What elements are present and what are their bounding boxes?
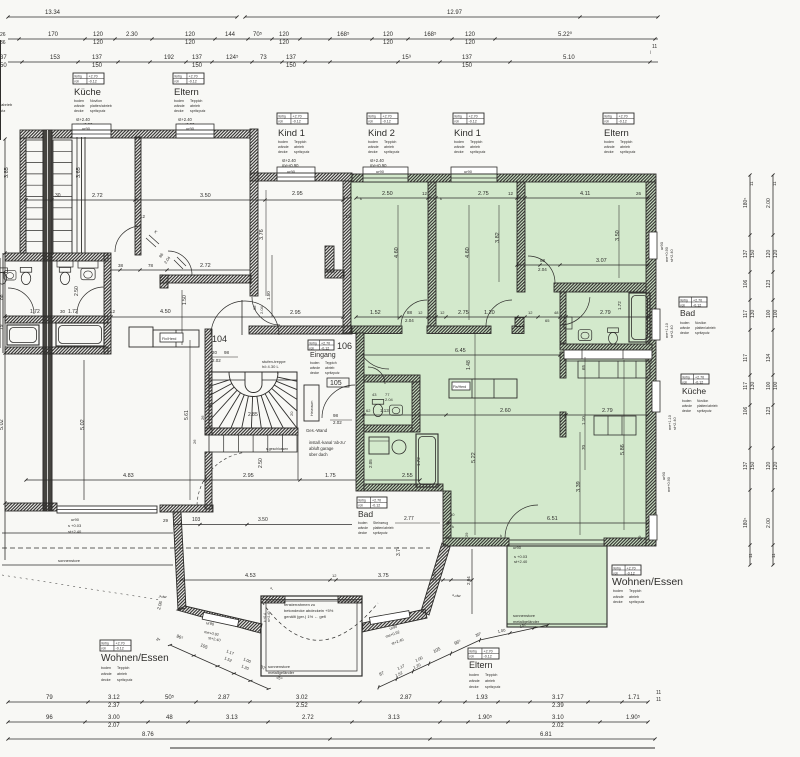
svg-text:abrieb: abrieb (325, 366, 335, 370)
svg-text:4.53: 4.53 (245, 573, 256, 579)
svg-text:1.72: 1.72 (416, 457, 421, 466)
svg-text:100: 100 (773, 309, 779, 318)
bathroom fixtures left bath (20, 267, 31, 284)
svg-text:ur90: ur90 (464, 169, 473, 174)
svg-text:me+0.90: me+0.90 (665, 247, 669, 262)
svg-text:+2.70: +2.70 (89, 74, 98, 78)
svg-text:ur90: ur90 (376, 169, 385, 174)
svg-text:spritzputz: spritzputz (325, 371, 340, 375)
svg-text:2.55: 2.55 (402, 473, 413, 479)
svg-text:150: 150 (286, 63, 297, 69)
svg-text:hö 4.30 L: hö 4.30 L (262, 364, 279, 369)
svg-text:+2.70: +2.70 (484, 649, 493, 653)
svg-text:4.60: 4.60 (394, 247, 400, 258)
svg-text:betondecke abdeckein +5%: betondecke abdeckein +5% (284, 608, 334, 613)
svg-text:ur90: ur90 (659, 241, 664, 250)
svg-text:1.72: 1.72 (30, 309, 40, 315)
svg-text:2.39: 2.39 (552, 703, 564, 709)
svg-text:12: 12 (422, 191, 428, 196)
svg-text:192: 192 (164, 55, 175, 61)
svg-text:me+0.90: me+0.90 (667, 477, 671, 492)
svg-text:150: 150 (192, 63, 203, 69)
svg-text:50⁵: 50⁵ (165, 694, 175, 701)
svg-text:Teppich: Teppich (470, 140, 482, 144)
corridor/stair semicircle opening (211, 301, 279, 335)
svg-text:3.00: 3.00 (108, 715, 120, 721)
dim line y523 (448, 522, 648, 524)
svg-text:4.11: 4.11 (580, 191, 590, 197)
svg-text:↖: ↖ (270, 586, 273, 591)
svg-text:62: 62 (366, 408, 371, 413)
svg-text:abrieb: abrieb (485, 679, 495, 683)
svg-text:120: 120 (383, 40, 394, 46)
svg-text:12: 12 (140, 214, 146, 219)
svg-text:5.02: 5.02 (0, 419, 5, 430)
svg-text:120: 120 (185, 32, 196, 38)
svg-text:15⁹: 15⁹ (402, 54, 412, 61)
svg-text:abrieb: abrieb (629, 595, 639, 599)
svg-text:wände: wände (310, 366, 320, 370)
svg-text:Novilon: Novilon (90, 99, 102, 103)
svg-text:2.60: 2.60 (500, 408, 511, 414)
bathtub right (56, 323, 104, 346)
svg-text:123: 123 (766, 279, 772, 288)
svg-text:Teppich: Teppich (485, 673, 497, 677)
svg-text:1.20: 1.20 (484, 310, 495, 316)
svg-text:12: 12 (332, 573, 337, 578)
svg-text:2.85: 2.85 (248, 412, 258, 418)
Bad 105 labels (357, 497, 387, 508)
svg-text:100: 100 (766, 381, 772, 390)
room label Kind 2 (green unit) (367, 113, 398, 124)
svg-text:fertig: fertig (75, 74, 82, 78)
svg-text:88: 88 (540, 258, 546, 263)
svg-text:+2.70: +2.70 (321, 341, 330, 345)
svg-text:2.02: 2.02 (552, 723, 564, 729)
svg-text:2.87: 2.87 (400, 695, 412, 701)
svg-text:roh: roh (455, 119, 460, 123)
bay wall left diagonal (177, 606, 262, 633)
svg-text:sonnenstore: sonnenstore (513, 613, 536, 618)
svg-text:79: 79 (0, 324, 5, 330)
svg-text:Ges.-Wand: Ges.-Wand (306, 428, 328, 433)
svg-text:decke: decke (680, 331, 689, 335)
svg-text:2.30: 2.30 (126, 32, 138, 38)
svg-text:12: 12 (345, 214, 351, 219)
svg-text:12: 12 (528, 310, 533, 315)
dim line y265 Eltern (517, 264, 648, 266)
svg-text:150: 150 (750, 461, 756, 470)
bottom dim line 3 (8, 738, 655, 740)
Bad green labels (679, 297, 707, 307)
svg-text:3.13: 3.13 (226, 715, 238, 721)
svg-text:spritzputz: spritzputz (470, 150, 486, 154)
svg-text:wände: wände (680, 326, 690, 330)
svg-text:5.22⁰: 5.22⁰ (558, 31, 573, 38)
svg-text:78: 78 (148, 263, 154, 268)
svg-text:boden: boden (368, 140, 378, 144)
svg-text:2.00: 2.00 (766, 518, 772, 528)
svg-text:153: 153 (50, 55, 61, 61)
svg-text:4.83: 4.83 (123, 473, 134, 479)
svg-text:/abrieb: /abrieb (0, 102, 13, 107)
svg-text:+2.70: +2.70 (383, 114, 392, 118)
bathroom left edge lines (2, 253, 4, 353)
svg-text:5.10: 5.10 (563, 55, 575, 61)
svg-text:fertig: fertig (614, 566, 621, 570)
svg-text:st+2.40: st+2.40 (673, 417, 677, 430)
Kueche stub walls (560, 352, 566, 378)
dims 38 78 2.72 (111, 269, 250, 271)
svg-text:2.95: 2.95 (243, 473, 254, 479)
svg-text:wände: wände (358, 526, 368, 530)
svg-text:Teppich: Teppich (384, 140, 396, 144)
svg-text:Bad: Bad (680, 308, 695, 318)
bay wall left vertical (173, 512, 186, 610)
Heizraum closet (304, 385, 319, 421)
svg-text:168⁵: 168⁵ (424, 31, 437, 38)
svg-text:103: 103 (192, 517, 201, 523)
wall Kind2/Kind1 (428, 182, 436, 329)
svg-text:2.52: 2.52 (296, 703, 308, 709)
svg-text:spritzputz: spritzputz (695, 331, 710, 335)
svg-text:+2.70: +2.70 (693, 298, 702, 302)
svg-text:29: 29 (445, 535, 450, 540)
svg-text:30: 30 (55, 193, 61, 199)
Kueche green labels (681, 374, 709, 384)
svg-text:98: 98 (224, 350, 230, 355)
vertical dim 5.61 (189, 340, 191, 500)
svg-text:100: 100 (773, 381, 779, 390)
bath105 block walls (356, 333, 364, 491)
svg-text:2.79: 2.79 (600, 310, 611, 316)
svg-text:137: 137 (743, 461, 749, 470)
svg-text:decke: decke (469, 685, 479, 689)
svg-text:3.13: 3.13 (388, 715, 400, 721)
svg-text:wände: wände (101, 672, 112, 676)
svg-text:130: 130 (750, 381, 756, 390)
svg-text:platten/abrieb: platten/abrieb (695, 326, 716, 330)
svg-text:metallgeländer: metallgeländer (268, 670, 295, 675)
entrance door arcs (356, 336, 389, 369)
hall/Bad wall green unit (560, 292, 566, 343)
svg-text:137: 137 (743, 249, 749, 258)
svg-text:2.75: 2.75 (458, 310, 469, 316)
svg-text:-0.12: -0.12 (619, 119, 627, 123)
svg-text:37: 37 (0, 55, 7, 61)
svg-text:ur90: ur90 (661, 471, 666, 480)
svg-text:decke: decke (358, 531, 367, 535)
svg-text:decke: decke (604, 150, 614, 154)
svg-text:117: 117 (743, 382, 749, 390)
svg-text:3.76: 3.76 (259, 229, 265, 240)
svg-text:+2.70: +2.70 (619, 114, 628, 118)
svg-text:decke: decke (368, 150, 378, 154)
svg-text:Fix/Herd: Fix/Herd (162, 337, 176, 341)
svg-text:+2.70: +2.70 (627, 566, 636, 570)
svg-text:120: 120 (93, 40, 104, 46)
svg-text:30: 30 (450, 512, 455, 517)
svg-text:sonnenstore: sonnenstore (58, 558, 81, 563)
svg-text:decke: decke (174, 109, 184, 113)
svg-text:5.22: 5.22 (471, 452, 477, 463)
svg-text:50: 50 (0, 63, 7, 69)
svg-text:spritzputz: spritzputz (190, 109, 206, 113)
right dim chain outer (772, 175, 774, 565)
svg-text:fertig: fertig (455, 114, 462, 118)
svg-text:1.50: 1.50 (182, 295, 188, 305)
svg-text:st+2.40: st+2.40 (670, 249, 674, 262)
svg-text:2.02: 2.02 (212, 358, 221, 363)
svg-text:decke: decke (278, 150, 288, 154)
svg-text:Kind 2: Kind 2 (368, 128, 395, 139)
bottom dim line 1 (8, 701, 648, 703)
svg-text:s +0.03: s +0.03 (68, 523, 82, 528)
svg-text:2.79: 2.79 (602, 408, 613, 414)
room label Kind 1 (green unit) (453, 113, 484, 124)
svg-text:wände: wände (368, 145, 379, 149)
svg-text:-0.12: -0.12 (695, 380, 703, 384)
svg-text:fertig: fertig (470, 649, 477, 653)
svg-text:boden: boden (278, 140, 288, 144)
svg-text:roh: roh (279, 119, 284, 123)
svg-text:120: 120 (773, 249, 779, 258)
svg-text:120: 120 (185, 40, 196, 46)
svg-text:|: | (650, 49, 651, 54)
Bad green-unit fixtures (578, 330, 592, 341)
svg-text:roh: roh (75, 79, 80, 83)
svg-text:↗dw: ↗dw (158, 594, 167, 599)
svg-text:install.-kanal 'ab-zu': install.-kanal 'ab-zu' (309, 440, 346, 445)
svg-text:2.50: 2.50 (382, 191, 393, 197)
party wall (double dark) (43, 130, 52, 511)
Bad bottom / Kueche top wall (560, 344, 652, 350)
svg-text:8.76: 8.76 (142, 732, 154, 738)
svg-text:168⁵: 168⁵ (337, 31, 350, 38)
room label Eltern (neighbour top) (173, 73, 204, 84)
svg-text:+2.70: +2.70 (372, 498, 381, 502)
svg-text:Teppich: Teppich (294, 140, 306, 144)
svg-text:-0.12: -0.12 (693, 303, 701, 307)
svg-text:180⁵: 180⁵ (743, 198, 749, 208)
top dimension chain line 2 (8, 38, 658, 40)
svg-text:abrieb: abrieb (470, 145, 480, 149)
svg-text:boden: boden (101, 666, 111, 670)
kitchen counter green unit (living) (449, 379, 517, 398)
svg-text:117: 117 (743, 354, 749, 362)
svg-text:+2.70: +2.70 (116, 641, 125, 645)
svg-text:170: 170 (48, 32, 59, 38)
svg-text:boden: boden (74, 99, 84, 103)
svg-text:roh: roh (310, 346, 315, 350)
svg-text:fertig: fertig (102, 641, 109, 645)
svg-text:-0.12: -0.12 (627, 571, 635, 575)
svg-text:120: 120 (383, 32, 394, 38)
dim line y355 (362, 354, 560, 356)
svg-text:20: 20 (212, 350, 218, 355)
svg-text:wände: wände (454, 145, 465, 149)
svg-text:2.72: 2.72 (92, 193, 103, 199)
svg-text:12.97: 12.97 (447, 10, 463, 16)
svg-text:abrieb: abrieb (117, 672, 127, 676)
svg-text:120: 120 (465, 32, 476, 38)
svg-text:70⁵: 70⁵ (253, 31, 263, 38)
svg-text:1.71: 1.71 (628, 695, 640, 701)
svg-text:boden: boden (613, 589, 623, 593)
svg-text:spritzputz: spritzputz (373, 531, 388, 535)
svg-text:-0.12: -0.12 (383, 119, 391, 123)
right dim chain inner (749, 175, 751, 565)
svg-text:106: 106 (743, 406, 749, 415)
Kind rooms bottom wall (352, 326, 402, 334)
svg-text:12: 12 (508, 191, 514, 196)
dim line y580 bay (181, 579, 472, 581)
closet row under stairwell (209, 435, 297, 452)
svg-text:spritzputz: spritzputz (294, 150, 310, 154)
svg-text:decke: decke (682, 409, 691, 413)
svg-text:3.10: 3.10 (552, 715, 564, 721)
dim line y198 green unit (356, 197, 648, 199)
svg-text:wände: wände (613, 595, 624, 599)
svg-text:boden: boden (680, 321, 690, 325)
svg-text:26: 26 (636, 191, 642, 196)
bathroom right wall (104, 253, 111, 354)
svg-text:120: 120 (465, 40, 476, 46)
svg-text:wände: wände (682, 404, 692, 408)
spiral stair (139, 372, 371, 492)
svg-text:Kind 1: Kind 1 (278, 128, 305, 139)
wall Kind1/Eltern (517, 182, 525, 292)
svg-text:26: 26 (192, 439, 197, 444)
dim 2.04 below living (471, 549, 473, 614)
svg-text:Teppich: Teppich (629, 589, 641, 593)
svg-text:26: 26 (0, 32, 6, 38)
svg-text:1.72: 1.72 (617, 301, 622, 310)
svg-text:fertig: fertig (605, 114, 612, 118)
corridor top wall neighbour (160, 275, 251, 283)
svg-text:106: 106 (743, 279, 749, 288)
svg-text:Steinzeug: Steinzeug (373, 521, 388, 525)
svg-text:-0.12: -0.12 (469, 119, 477, 123)
svg-text:fensterrahmen zu: fensterrahmen zu (284, 602, 315, 607)
terrace door sill (509, 540, 604, 548)
svg-text:3.75: 3.75 (378, 573, 389, 579)
svg-text:spritzputz: spritzputz (117, 678, 133, 682)
svg-text:fertig: fertig (369, 114, 376, 118)
svg-text:2.50: 2.50 (74, 286, 80, 296)
svg-text:123: 123 (766, 406, 772, 415)
svg-text:+2.70: +2.70 (695, 375, 704, 379)
svg-text:boden: boden (682, 399, 692, 403)
svg-text:wände: wände (174, 104, 185, 108)
top wall Kind1 neighbour (250, 173, 352, 181)
svg-text:Wohnen/Essen: Wohnen/Essen (101, 653, 169, 664)
svg-text:decke: decke (613, 600, 623, 604)
svg-text:6.51: 6.51 (547, 516, 558, 522)
room label Kueche (neighbour) (73, 73, 104, 84)
svg-text:fertig: fertig (359, 498, 366, 502)
svg-text:73: 73 (260, 55, 267, 61)
svg-text:3.50: 3.50 (615, 230, 621, 241)
svg-text:3.39: 3.39 (576, 481, 582, 492)
svg-text:boden: boden (310, 361, 320, 365)
svg-text:2.50: 2.50 (258, 458, 264, 468)
svg-text:fertig: fertig (683, 375, 690, 379)
svg-text:st+2.40: st+2.40 (514, 559, 528, 564)
green unit top wall (352, 174, 656, 182)
svg-text:roh: roh (102, 646, 107, 650)
svg-text:11: 11 (748, 553, 753, 558)
svg-text:29: 29 (464, 532, 469, 537)
svg-text:-0.12: -0.12 (293, 119, 301, 123)
dim line y415 (364, 414, 648, 416)
svg-text:abluft garage: abluft garage (309, 446, 334, 451)
svg-text:platten/abrieb: platten/abrieb (373, 526, 394, 530)
svg-text:fertig: fertig (279, 114, 286, 118)
svg-text:2.00: 2.00 (766, 198, 772, 208)
wall Kueche/Eltern neighbour (thin) (81, 137, 83, 253)
Wohnen/Essen green labels (612, 565, 641, 575)
svg-text:120: 120 (279, 32, 290, 38)
svg-text:boden: boden (604, 140, 614, 144)
svg-text:88: 88 (407, 310, 413, 315)
svg-text:38: 38 (118, 263, 124, 268)
svg-text:11: 11 (656, 697, 661, 703)
svg-text:26: 26 (200, 415, 205, 420)
svg-text:roh: roh (681, 303, 686, 307)
svg-text:12: 12 (440, 310, 445, 315)
svg-text:me+1.10: me+1.10 (665, 323, 669, 338)
bay dashed arcs (262, 602, 378, 640)
svg-text:abrieb: abrieb (294, 145, 304, 149)
svg-text:4.60: 4.60 (465, 247, 471, 258)
svg-text:144: 144 (225, 32, 236, 38)
svg-text:1.48: 1.48 (466, 360, 472, 370)
svg-text:20: 20 (289, 411, 294, 416)
svg-text:2.07: 2.07 (108, 723, 120, 729)
svg-text:12: 12 (418, 310, 423, 315)
svg-text:3.02: 3.02 (296, 695, 308, 701)
svg-text:79: 79 (46, 695, 53, 701)
svg-text:k: k (440, 196, 442, 201)
svg-text:spritzputz: spritzputz (620, 150, 636, 154)
svg-text:fertig: fertig (681, 298, 688, 302)
svg-text:↑: ↑ (276, 370, 279, 376)
svg-text:decke: decke (310, 371, 319, 375)
svg-text:2.04: 2.04 (432, 571, 437, 580)
svg-text:150: 150 (462, 63, 473, 69)
svg-text:abrieb: abrieb (384, 145, 394, 149)
svg-text:1.90⁵: 1.90⁵ (478, 714, 493, 721)
svg-text:k: k (500, 533, 502, 538)
svg-text:abrieb: abrieb (620, 145, 630, 149)
Wohnen/Essen neighbour label (100, 640, 131, 651)
svg-text:137: 137 (286, 55, 297, 61)
svg-text:137: 137 (92, 55, 103, 61)
wardrobe ladder 1 (26, 140, 43, 253)
svg-text:sonnenstore: sonnenstore (268, 664, 291, 669)
svg-text:fertig: fertig (310, 341, 317, 345)
svg-text:boden: boden (454, 140, 464, 144)
diagonal dim chain left (168, 643, 271, 691)
svg-text:↖dw: ↖dw (452, 593, 461, 598)
dim line y317 green unit (356, 316, 648, 318)
svg-text:13.34: 13.34 (45, 10, 61, 16)
svg-text:11: 11 (656, 690, 661, 696)
svg-text:s.geschlossen: s.geschlossen (266, 447, 288, 451)
svg-text:Küche: Küche (682, 386, 706, 396)
svg-text:boden: boden (469, 673, 479, 677)
